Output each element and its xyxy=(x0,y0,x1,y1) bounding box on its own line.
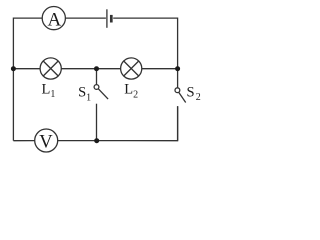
svg-text:S1: S1 xyxy=(78,85,91,104)
svg-text:L2: L2 xyxy=(124,82,138,101)
wire: S1 branch down from node xyxy=(96,69,98,85)
wire: ammeter to battery xyxy=(65,17,106,19)
wire: L1 to S1 node to lamp L2 xyxy=(61,68,120,70)
node: S1 top junction xyxy=(94,66,99,71)
wire: S1 lower contact to bottom wire xyxy=(96,104,98,141)
lamp L1 circle xyxy=(40,58,61,79)
wire: L2 to right-side node xyxy=(142,68,178,70)
lamp L2 cross xyxy=(124,61,139,76)
wire: top-left segment from left corner to ammeter xyxy=(13,18,42,69)
node: bottom junction xyxy=(94,138,99,143)
switch S2 pivot circle xyxy=(175,88,180,93)
svg-text:V: V xyxy=(39,132,53,152)
node: right junction xyxy=(175,66,180,71)
switch S1 pivot circle xyxy=(94,85,99,90)
wire: left side lower half xyxy=(12,69,14,141)
wire: S2 lower contact to bottom wire xyxy=(177,106,179,141)
wire: middle row left, node to lamp L1 xyxy=(13,68,40,70)
svg-text:A: A xyxy=(48,10,62,31)
node: left junction xyxy=(11,66,16,71)
wire: bottom-left to voltmeter xyxy=(13,140,34,142)
svg-text:S2: S2 xyxy=(187,85,201,104)
svg-text:L1: L1 xyxy=(42,81,56,100)
battery cell long plate (+) xyxy=(106,9,108,28)
switch S1 blade xyxy=(98,89,108,99)
wire: voltmeter to bottom-right corner xyxy=(58,106,178,141)
lamp L1 cross xyxy=(43,61,58,76)
battery cell short thick plate (-) xyxy=(110,15,113,23)
wire: battery to top-right corner down right side xyxy=(113,18,177,88)
switch S2 blade xyxy=(179,92,186,102)
lamp L2 circle xyxy=(121,58,142,79)
voltmeter circle xyxy=(35,129,58,152)
ammeter U? circle xyxy=(42,7,65,30)
